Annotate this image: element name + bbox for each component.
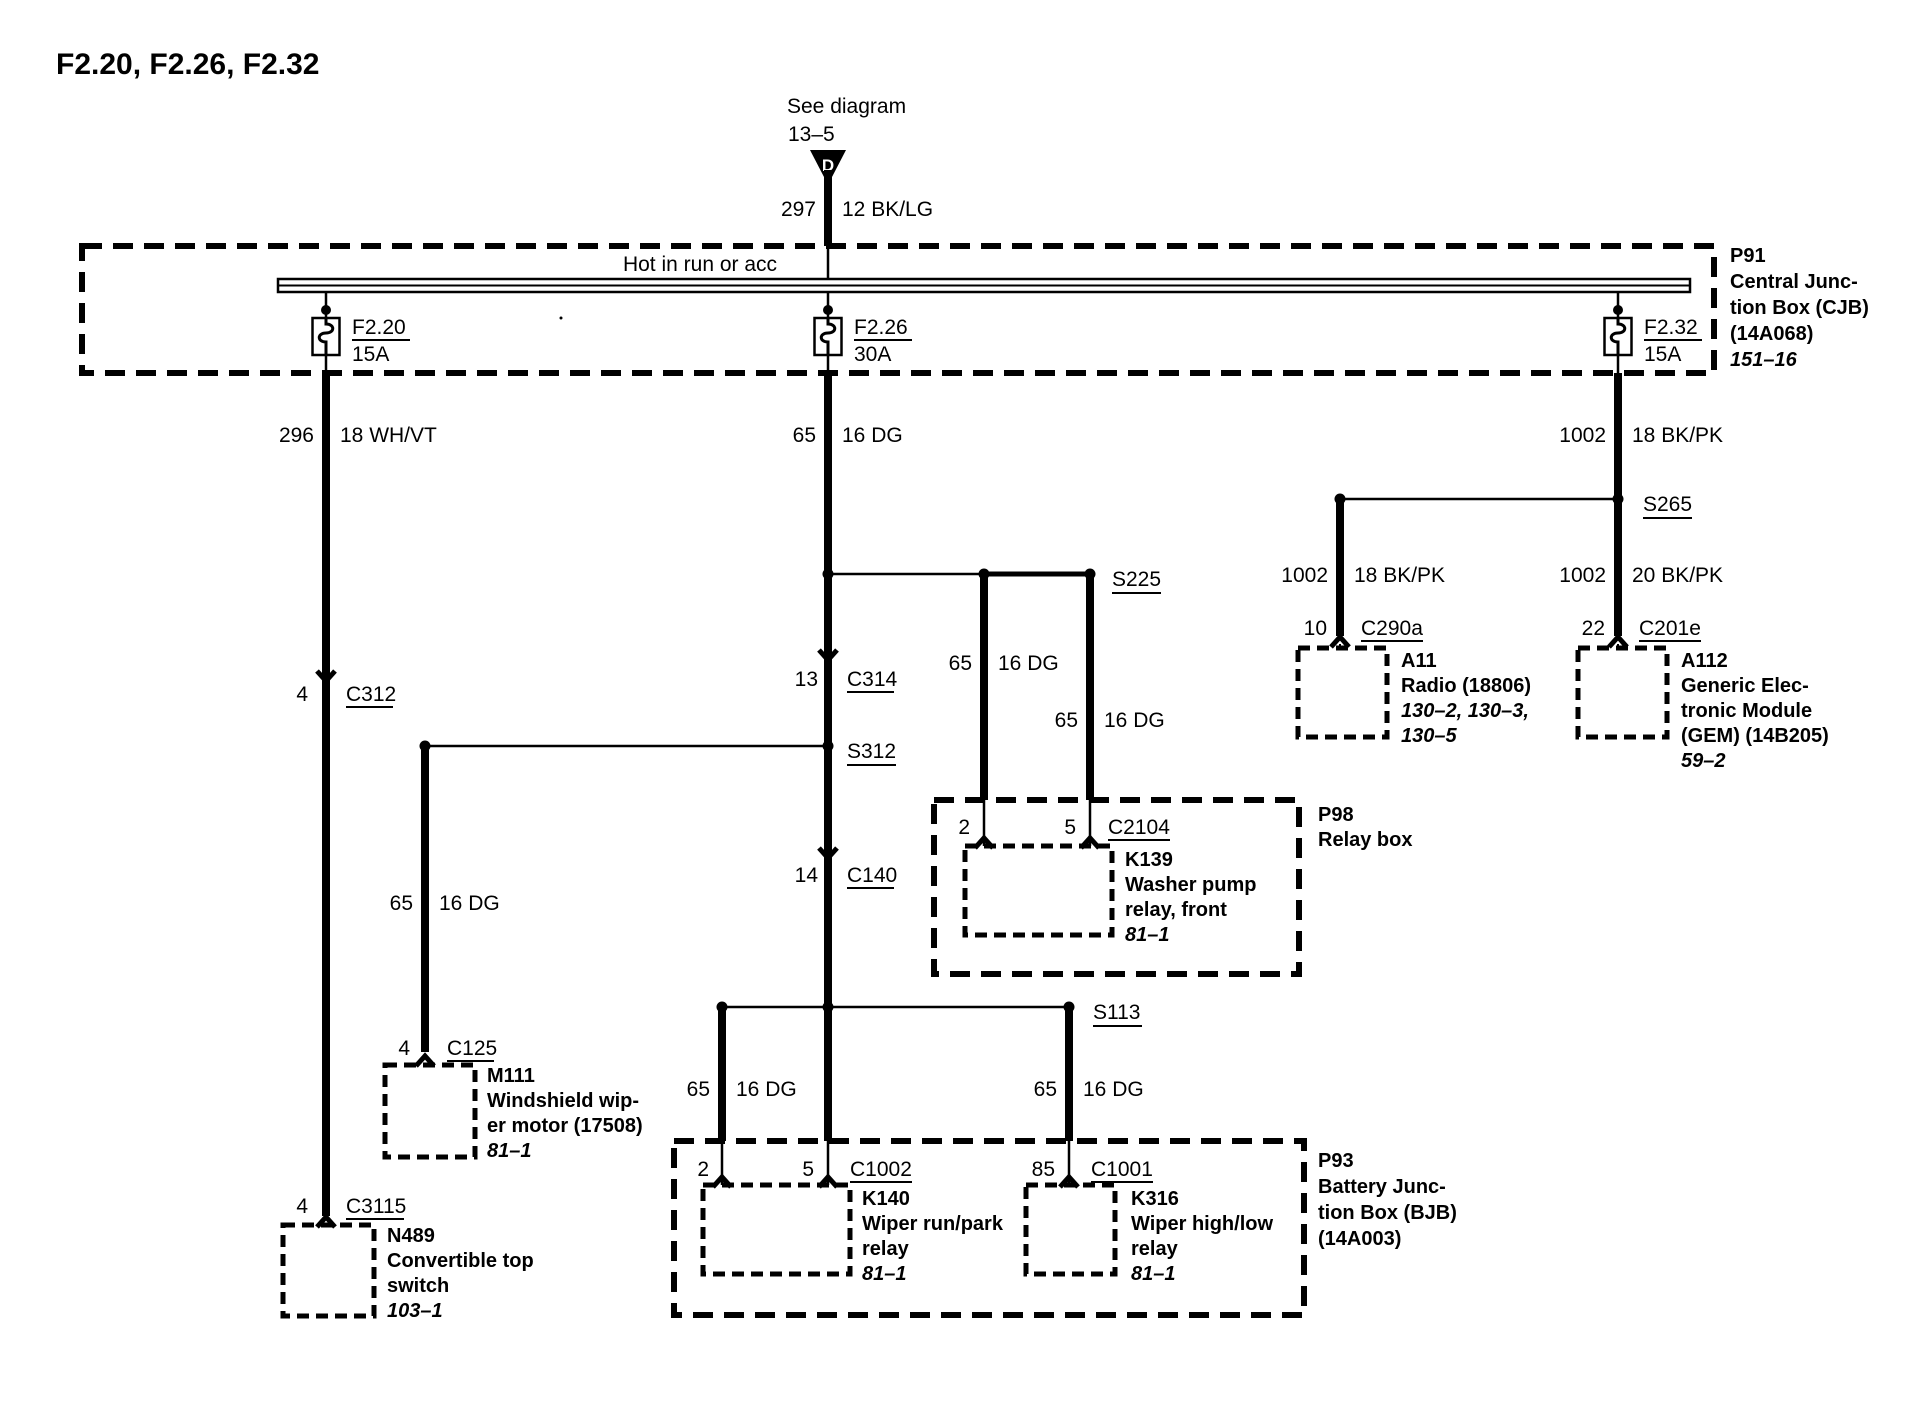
svg-text:20 BK/PK: 20 BK/PK	[1632, 564, 1723, 587]
svg-text:tronic Module: tronic Module	[1681, 700, 1812, 722]
svg-text:M111: M111	[487, 1065, 535, 1087]
svg-text:relay: relay	[1131, 1238, 1179, 1260]
svg-text:er motor (17508): er motor (17508)	[487, 1115, 643, 1137]
wire 1002 18 BK/PK (S265 to radio)	[1336, 499, 1344, 636]
svg-text:tion Box (CJB): tion Box (CJB)	[1730, 297, 1869, 319]
N489 Convertible top switch (dashed box)	[283, 1225, 374, 1316]
svg-text:C1001: C1001	[1091, 1158, 1153, 1181]
svg-text:S113: S113	[1093, 1001, 1141, 1024]
svg-text:4: 4	[296, 1195, 308, 1218]
svg-text:15A: 15A	[1644, 343, 1681, 366]
svg-text:N489: N489	[387, 1225, 435, 1247]
svg-text:F2.20: F2.20	[352, 316, 406, 339]
svg-text:1002: 1002	[1559, 564, 1606, 587]
splice S225	[823, 568, 1162, 593]
svg-text:Central Junc-: Central Junc-	[1730, 271, 1858, 293]
svg-text:Generic Elec-: Generic Elec-	[1681, 675, 1809, 697]
svg-text:Windshield wip-: Windshield wip-	[487, 1090, 639, 1112]
svg-text:65: 65	[687, 1078, 710, 1101]
svg-text:F2.20, F2.26, F2.32: F2.20, F2.26, F2.32	[56, 48, 319, 81]
svg-text:81–1: 81–1	[1131, 1263, 1176, 1285]
svg-text:Relay box: Relay box	[1318, 829, 1412, 851]
svg-text:30A: 30A	[854, 343, 891, 366]
svg-text:81–1: 81–1	[862, 1263, 907, 1285]
wire 65 16 DG (middle column from F2.26)	[824, 373, 832, 1141]
P91 Central Junction Box (dashed)	[82, 246, 1714, 373]
splice S312	[420, 740, 897, 765]
artifact dot	[560, 317, 563, 320]
svg-text:K316: K316	[1131, 1188, 1179, 1210]
svg-text:85: 85	[1032, 1158, 1055, 1181]
connector C312 (in-line)	[296, 671, 396, 707]
svg-text:(14A003): (14A003)	[1318, 1228, 1401, 1250]
svg-text:C201e: C201e	[1639, 617, 1701, 640]
svg-text:1002: 1002	[1281, 564, 1328, 587]
splice S113	[717, 1001, 1143, 1026]
wire 65 16 DG (S113 right leg to K316 pin 85)	[1065, 1007, 1073, 1141]
svg-text:(GEM) (14B205): (GEM) (14B205)	[1681, 725, 1829, 747]
svg-text:22: 22	[1582, 617, 1605, 640]
svg-text:16 DG: 16 DG	[1104, 709, 1165, 732]
svg-text:13–5: 13–5	[788, 123, 835, 146]
svg-text:C314: C314	[847, 668, 898, 691]
bus bar	[278, 279, 1690, 292]
K139 Washer pump relay front (dashed box)	[965, 846, 1112, 935]
svg-text:16 DG: 16 DG	[736, 1078, 797, 1101]
fuse F2.32 15A	[1605, 292, 1703, 373]
svg-text:65: 65	[949, 652, 972, 675]
svg-text:1002: 1002	[1559, 424, 1606, 447]
off-page connector D (triangle)	[810, 150, 846, 177]
svg-text:Wiper run/park: Wiper run/park	[862, 1213, 1004, 1235]
svg-text:4: 4	[398, 1037, 410, 1060]
svg-text:C1002: C1002	[850, 1158, 912, 1181]
svg-text:S312: S312	[847, 740, 896, 763]
svg-text:C312: C312	[346, 683, 396, 706]
svg-text:S225: S225	[1112, 568, 1161, 591]
svg-text:16 DG: 16 DG	[439, 892, 500, 915]
svg-text:297: 297	[781, 198, 816, 221]
connector C3115	[296, 1195, 406, 1227]
svg-text:2: 2	[697, 1158, 709, 1181]
svg-text:switch: switch	[387, 1275, 449, 1297]
svg-text:13: 13	[795, 668, 818, 691]
wire 1002 18 BK/PK (F2.32 down)	[1614, 373, 1622, 636]
svg-text:130–2, 130–3,: 130–2, 130–3,	[1401, 700, 1529, 722]
wire 65 16 DG (S225 right leg to K139 pin 5)	[1086, 574, 1094, 800]
P98 Relay box (dashed)	[934, 800, 1299, 974]
svg-text:18 BK/PK: 18 BK/PK	[1632, 424, 1723, 447]
svg-text:P98: P98	[1318, 804, 1354, 826]
svg-text:Hot in run or acc: Hot in run or acc	[623, 253, 777, 276]
svg-text:(14A068): (14A068)	[1730, 323, 1813, 345]
svg-text:F2.32: F2.32	[1644, 316, 1698, 339]
svg-text:Convertible top: Convertible top	[387, 1250, 534, 1272]
svg-text:65: 65	[1034, 1078, 1057, 1101]
svg-text:4: 4	[296, 683, 308, 706]
svg-text:15A: 15A	[352, 343, 389, 366]
svg-text:C125: C125	[447, 1037, 497, 1060]
svg-text:18 WH/VT: 18 WH/VT	[340, 424, 437, 447]
svg-text:16 DG: 16 DG	[998, 652, 1059, 675]
svg-text:130–5: 130–5	[1401, 725, 1457, 747]
wire 65 16 DG (S113 left leg to K140 pin 2)	[718, 1007, 726, 1141]
connector C1002 pins 2 and 5	[697, 1158, 912, 1187]
connector C140 (in-line)	[795, 848, 898, 888]
wire 65 16 DG (S312 to M111)	[421, 746, 429, 1052]
svg-text:65: 65	[390, 892, 413, 915]
K316 Wiper high/low relay (dashed box)	[1026, 1185, 1115, 1274]
connector C1001 pin 85	[1032, 1158, 1153, 1187]
svg-text:relay, front: relay, front	[1125, 899, 1227, 921]
svg-text:C290a: C290a	[1361, 617, 1423, 640]
connector C2104 pins 2 and 5	[958, 816, 1170, 848]
svg-text:14: 14	[795, 864, 819, 887]
splice S265	[1335, 493, 1693, 518]
svg-text:151–16: 151–16	[1730, 349, 1798, 371]
fuse F2.26 30A	[815, 292, 913, 373]
svg-text:tion Box (BJB): tion Box (BJB)	[1318, 1202, 1457, 1224]
svg-text:16 DG: 16 DG	[842, 424, 903, 447]
svg-text:2: 2	[958, 816, 970, 839]
svg-text:5: 5	[802, 1158, 814, 1181]
svg-text:K140: K140	[862, 1188, 910, 1210]
wire 296 18 WH/VT (left column)	[322, 373, 330, 1216]
svg-text:10: 10	[1304, 617, 1327, 640]
svg-text:F2.26: F2.26	[854, 316, 908, 339]
A112 Generic Electronic Module (dashed box)	[1578, 648, 1667, 737]
A11 Radio (dashed box)	[1298, 648, 1387, 737]
svg-text:81–1: 81–1	[1125, 924, 1170, 946]
connector C290a pin 10	[1304, 617, 1424, 648]
connector C201e pin 22	[1582, 617, 1701, 648]
svg-text:P93: P93	[1318, 1150, 1354, 1172]
K140 Wiper run/park relay (dashed box)	[703, 1185, 850, 1274]
svg-text:S265: S265	[1643, 493, 1692, 516]
svg-text:Battery Junc-: Battery Junc-	[1318, 1176, 1446, 1198]
connector C125	[398, 1037, 497, 1066]
svg-text:16 DG: 16 DG	[1083, 1078, 1144, 1101]
fuse F2.20 15A	[313, 292, 411, 373]
svg-text:81–1: 81–1	[487, 1140, 532, 1162]
svg-text:C140: C140	[847, 864, 897, 887]
svg-text:18 BK/PK: 18 BK/PK	[1354, 564, 1445, 587]
svg-text:59–2: 59–2	[1681, 750, 1726, 772]
svg-text:65: 65	[793, 424, 816, 447]
P91 label text	[1730, 245, 1869, 371]
wire 65 16 DG (S225 left leg to K139 pin 2)	[980, 574, 988, 800]
svg-text:C3115: C3115	[346, 1195, 406, 1218]
svg-text:103–1: 103–1	[387, 1300, 443, 1322]
svg-text:A11: A11	[1401, 650, 1437, 672]
svg-text:K139: K139	[1125, 849, 1173, 871]
connector C314 (in-line)	[795, 650, 898, 692]
svg-text:P91: P91	[1730, 245, 1766, 267]
svg-text:C2104: C2104	[1108, 816, 1170, 839]
wire 297 12 BK/LG (feed into CJB)	[824, 170, 832, 246]
svg-text:relay: relay	[862, 1238, 910, 1260]
svg-text:Washer pump: Washer pump	[1125, 874, 1257, 896]
svg-text:Wiper high/low: Wiper high/low	[1131, 1213, 1273, 1235]
svg-text:A112: A112	[1681, 650, 1728, 672]
svg-text:65: 65	[1055, 709, 1078, 732]
svg-text:See diagram: See diagram	[787, 95, 906, 118]
svg-text:12 BK/LG: 12 BK/LG	[842, 198, 933, 221]
P93 Battery Junction Box (dashed)	[674, 1141, 1304, 1315]
svg-text:296: 296	[279, 424, 314, 447]
svg-text:5: 5	[1064, 816, 1076, 839]
svg-text:Radio (18806): Radio (18806)	[1401, 675, 1531, 697]
M111 Windshield wiper motor (dashed box)	[385, 1065, 475, 1157]
